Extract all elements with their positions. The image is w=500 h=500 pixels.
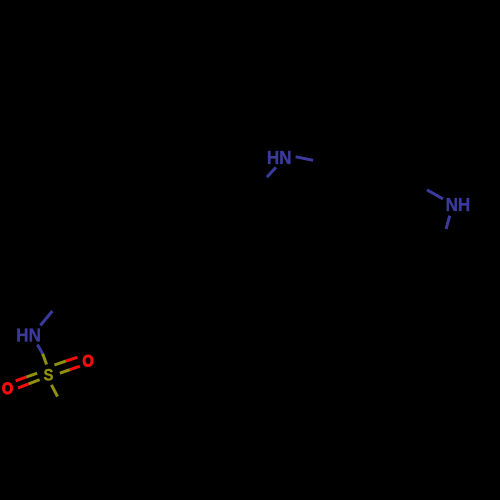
double bond S=O1 lower line, S half [60, 370, 70, 374]
svg-text:O: O [2, 380, 13, 398]
wire N1 to C (right, N half) [296, 157, 314, 161]
double bond S=O1 lower line, O half [70, 366, 80, 370]
double bond S=O1 upper line, S half [54, 361, 66, 365]
wire N2 to C (down, N half) [446, 216, 450, 229]
wire N2 to C (up-left, N half) [427, 190, 443, 199]
svg-text:O: O [83, 352, 94, 370]
double bond S=O1 upper line, O half [66, 357, 78, 361]
svg-text:HN: HN [16, 326, 41, 346]
svg-text:HN: HN [267, 148, 292, 168]
svg-text:NH: NH [446, 195, 471, 215]
double bond S=O2 lower line, S half [29, 380, 40, 384]
double bond S=O2 upper line, S half [26, 373, 37, 377]
svg-text:S: S [44, 366, 54, 385]
double bond S=O2 lower line, O half [18, 384, 29, 388]
wire N3 to S (N half, blue) [37, 345, 42, 354]
wire N3 to S (S half, olive) [43, 354, 47, 365]
double bond S=O2 upper line, O half [16, 377, 27, 381]
wire S to methyl C (S half) [51, 385, 57, 397]
wire N1 to C (down-left, N half) [267, 167, 276, 177]
wire N3 to C (up-right, N half) [40, 311, 52, 325]
